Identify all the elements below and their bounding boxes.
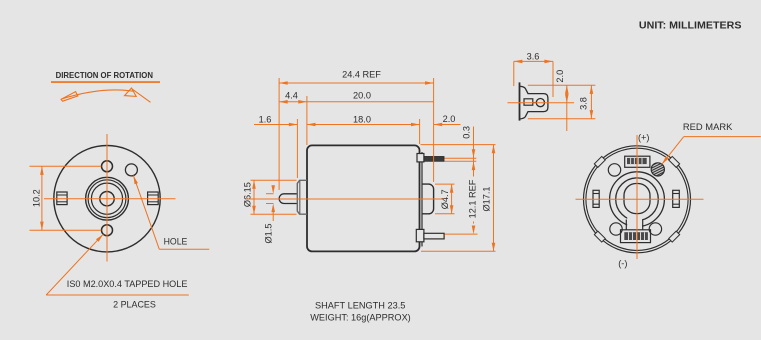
svg-text:2 PLACES: 2 PLACES	[113, 299, 156, 309]
shaft bore circle	[100, 192, 114, 206]
top terminal	[417, 154, 424, 162]
dim 18.0	[307, 124, 420, 126]
svg-text:Ø6.15: Ø6.15	[243, 182, 253, 207]
centerline side view	[246, 198, 444, 200]
svg-text:20.0: 20.0	[353, 90, 371, 100]
svg-text:3.6: 3.6	[527, 51, 540, 61]
svg-text:HOLE: HOLE	[164, 236, 188, 246]
cap surface line	[519, 82, 521, 120]
dim 2.0	[566, 85, 568, 131]
svg-text:12.1 REF: 12.1 REF	[467, 179, 477, 218]
neck erase	[627, 215, 642, 230]
svg-text:RED MARK: RED MARK	[683, 122, 733, 132]
dimension 10.2	[30, 166, 102, 230]
left tab	[57, 192, 67, 205]
dim dia 6.15	[251, 180, 297, 214]
dim dia 4.7	[435, 184, 455, 214]
bottom terminal rear	[621, 230, 651, 243]
red mark hatched circle	[650, 159, 666, 182]
svg-text:10.2: 10.2	[32, 189, 42, 207]
svg-text:0.3: 0.3	[461, 126, 471, 139]
hole NW	[608, 164, 620, 176]
svg-text:4.4: 4.4	[285, 90, 298, 100]
svg-text:IS0 M2.0X0.4 TAPPED HOLE: IS0 M2.0X0.4 TAPPED HOLE	[67, 279, 188, 289]
rotation curved arrow	[62, 90, 133, 99]
flange extension lines	[528, 85, 596, 118]
tapped hole bottom	[102, 225, 113, 236]
rim notches	[594, 156, 679, 242]
dim 3.6	[514, 61, 553, 97]
direction label underline	[51, 81, 160, 83]
svg-text:WEIGHT: 16g(APPROX): WEIGHT: 16g(APPROX)	[310, 312, 411, 322]
motor body circle	[54, 146, 160, 252]
svg-text:(+): (+)	[638, 132, 649, 142]
centerline overlay front view	[44, 103, 704, 262]
svg-text:DIRECTION OF ROTATION: DIRECTION OF ROTATION	[56, 70, 153, 80]
svg-text:(-): (-)	[618, 258, 627, 268]
centerline terminal detail	[508, 102, 575, 104]
hole SW	[610, 223, 622, 235]
tapped hole top	[102, 161, 113, 172]
bushing	[297, 180, 307, 214]
neck lines	[625, 220, 627, 231]
terminal flange and head	[520, 86, 548, 119]
dim 24.4 REF	[279, 82, 434, 84]
hub ring middle	[88, 180, 126, 218]
hub ring outer	[86, 177, 129, 220]
terminal hole	[536, 99, 544, 107]
horizontal extension lines right side	[421, 145, 496, 252]
dim dia 1.5	[266, 186, 274, 222]
bottom terminal	[416, 229, 424, 241]
dim 3.8	[590, 85, 592, 118]
endcap bump	[422, 184, 434, 214]
boss inner circle	[616, 178, 659, 221]
svg-text:18.0: 18.0	[353, 114, 371, 124]
crimp slot	[524, 99, 533, 105]
outer circle	[584, 146, 691, 253]
rim circle	[586, 148, 688, 250]
svg-text:Ø17.1: Ø17.1	[482, 186, 492, 211]
shaft	[279, 194, 297, 204]
svg-text:2.0: 2.0	[443, 114, 456, 124]
leader HOLE	[133, 176, 159, 250]
hub ring inner	[91, 183, 122, 214]
dim 1.6	[254, 124, 297, 126]
dim 0.3 + 12.1 REF vertical line	[473, 127, 475, 224]
svg-text:3.8: 3.8	[578, 97, 588, 110]
svg-text:SHAFT LENGTH 23.5: SHAFT LENGTH 23.5	[315, 300, 405, 310]
shaft hole obround	[624, 184, 650, 214]
dim dia 17.1	[493, 145, 495, 252]
plain hole top-right	[125, 164, 137, 176]
motor body	[307, 145, 420, 251]
dim 4.4	[279, 101, 307, 103]
dim 2.0 right	[434, 124, 461, 126]
dim 20.0	[307, 101, 434, 103]
top terminal rear	[625, 156, 650, 167]
svg-text:24.4 REF: 24.4 REF	[342, 69, 381, 79]
svg-text:2.0: 2.0	[555, 70, 565, 83]
centerlines rear view	[576, 198, 704, 200]
hole SE	[649, 223, 661, 235]
extension lines vertical	[279, 78, 434, 190]
svg-text:UNIT: MILLIMETERS: UNIT: MILLIMETERS	[639, 20, 742, 31]
leader tapped hole	[46, 234, 103, 295]
right tab	[673, 190, 680, 207]
boss outer circle	[610, 172, 665, 227]
right tab	[148, 192, 159, 205]
endcap plate line	[421, 152, 423, 247]
left tab	[593, 190, 599, 207]
svg-text:Ø1.5: Ø1.5	[263, 224, 273, 244]
svg-text:1.6: 1.6	[259, 114, 272, 124]
